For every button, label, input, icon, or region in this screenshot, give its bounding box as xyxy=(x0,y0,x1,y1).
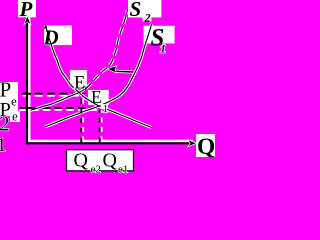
svg-text:e2: e2 xyxy=(91,164,101,176)
annotation arrow from S1 to S2 (halo) xyxy=(115,70,134,74)
wire: S2 supply curve solid lower segment (halo) xyxy=(27,89,86,112)
svg-text:Q: Q xyxy=(197,134,215,160)
svg-text:P: P xyxy=(0,78,11,102)
P axis arrowhead xyxy=(25,16,30,23)
dashed vertical quantity line Qe1 xyxy=(99,110,101,143)
tick Pe2 on P axis xyxy=(22,93,31,95)
svg-text:e: e xyxy=(11,94,17,109)
label box D (under curve) xyxy=(44,26,72,46)
axis P vertical xyxy=(26,16,28,144)
axis Q horizontal xyxy=(26,142,193,144)
svg-text:P: P xyxy=(19,0,33,21)
label box S1 (under curve) xyxy=(144,26,175,44)
svg-text:1: 1 xyxy=(0,134,7,156)
label box P axis xyxy=(18,0,36,17)
svg-text:E: E xyxy=(91,87,102,107)
svg-text:2: 2 xyxy=(144,11,151,25)
axis Q horizontal (halo) xyxy=(28,140,193,143)
wire: S1 supply curve (halo) xyxy=(45,24,152,127)
label box Qe2 Qe1 (with black border) xyxy=(67,150,134,171)
tick Pe1 on P axis xyxy=(28,107,36,109)
label box Pe2/Pe1 price labels xyxy=(0,82,18,116)
svg-text:1: 1 xyxy=(103,103,109,115)
svg-text:2: 2 xyxy=(82,83,88,97)
axis P vertical (halo) xyxy=(28,16,31,143)
label E1 (notch + glyphs over curves) xyxy=(101,104,109,109)
wire: S2 supply curve dashed upper segment xyxy=(86,10,127,89)
annotation arrowhead xyxy=(108,66,116,72)
wire: demand curve D (halo) xyxy=(46,26,152,128)
label box S2 (under curve) xyxy=(128,0,161,18)
dashed horizontal price line Pe2 (halo) xyxy=(23,94,79,97)
svg-text:Q: Q xyxy=(103,150,118,172)
wire: S2 supply curve dashed upper segment (halo) xyxy=(86,10,127,89)
svg-text:D: D xyxy=(43,26,59,50)
svg-text:e: e xyxy=(12,109,18,124)
dashed vertical quantity line Qe2 (halo) xyxy=(82,96,84,142)
svg-text:e1: e1 xyxy=(118,164,128,176)
svg-text:S: S xyxy=(130,0,142,21)
dashed horizontal price line Pe2 xyxy=(23,93,79,95)
dashed vertical quantity line Qe2 xyxy=(80,96,82,143)
wire: demand curve D xyxy=(46,26,152,128)
wire: S1 supply curve xyxy=(45,24,152,127)
svg-text:1: 1 xyxy=(160,41,166,55)
wire: S2 supply curve solid lower segment xyxy=(27,89,86,112)
demand curve top arrowhead xyxy=(44,25,47,30)
dashed vertical quantity line Qe1 (halo) xyxy=(100,110,102,142)
Q axis arrowhead xyxy=(189,140,196,146)
label box E1 (under curves) xyxy=(88,90,109,105)
dashed horizontal price line Pe1 xyxy=(20,107,100,109)
dashed horizontal price line Pe1 (halo) xyxy=(20,108,100,111)
svg-text:2: 2 xyxy=(0,112,10,136)
annotation arrow from S1 to S2 xyxy=(115,70,134,73)
label box E2 (under curves) xyxy=(70,70,87,87)
svg-text:Q: Q xyxy=(74,150,89,172)
label box Q axis xyxy=(196,134,215,157)
